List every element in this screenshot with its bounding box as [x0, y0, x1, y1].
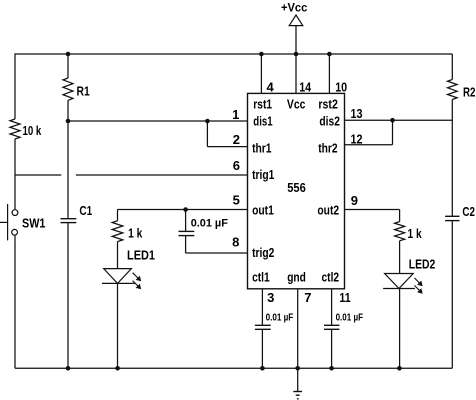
svg-text:dis1: dis1 — [253, 113, 272, 128]
svg-text:trig1: trig1 — [252, 167, 274, 182]
wire pin 7 gnd stub to ground bus — [297, 289, 299, 369]
resistor R1 — [63, 78, 73, 100]
wire pin 10 stub — [328, 54, 330, 93]
resistor 1 k (LED2) — [395, 222, 405, 241]
switch SW1 plunger stem — [0, 221, 8, 223]
LED2 cathode bar — [383, 288, 415, 290]
wire pin 11 stub — [331, 289, 333, 326]
junction dis2/thr2 tie — [390, 118, 395, 123]
svg-text:Vcc: Vcc — [287, 97, 306, 112]
svg-text:SW1: SW1 — [22, 215, 45, 230]
ground symbol bar 2 — [296, 394, 300, 396]
junction C1 line on ground bus — [66, 366, 71, 371]
svg-text:rst1: rst1 — [253, 97, 272, 112]
wire ctl1 cap to ground bus — [261, 329, 263, 368]
wire thr2 tie vertical — [392, 120, 394, 145]
svg-text:gnd: gnd — [287, 270, 306, 285]
svg-text:12: 12 — [351, 132, 363, 147]
switch SW1 pushbutton contact lower — [12, 229, 18, 235]
svg-text:dis2: dis2 — [319, 113, 340, 128]
wire C2 bottom lead to ground bus — [451, 221, 453, 369]
svg-text:C1: C1 — [79, 203, 92, 218]
wire R2 bottom lead to dis2 line — [451, 100, 453, 217]
junction LED2 line on ground bus — [397, 366, 402, 371]
wire 1 k to LED2 anode — [399, 241, 401, 274]
wire left rail middle segment — [14, 139, 16, 210]
LED1 cathode bar — [102, 282, 135, 284]
wire top rail +Vcc (left to right) — [15, 53, 452, 55]
junction pin 11 line on ground bus — [329, 366, 334, 371]
capacitor C1 top plate — [61, 218, 77, 220]
svg-text:3: 3 — [267, 290, 274, 305]
svg-text:R2: R2 — [463, 85, 476, 100]
capacitor 0.01 uF (ctl2) bottom plate — [324, 328, 339, 330]
switch SW1 actuator bar — [7, 204, 9, 240]
wire left rail lower segment — [14, 235, 16, 368]
ground symbol bar 3 — [297, 398, 299, 400]
svg-text:0.01 µF: 0.01 µF — [191, 217, 228, 229]
wire C1 top lead (dis1 node down to C1) — [67, 121, 69, 219]
capacitor C2 bottom plate — [445, 220, 459, 222]
wire out1 (pin 5 to LED branch) — [118, 209, 248, 211]
svg-text:trig2: trig2 — [252, 245, 274, 260]
svg-text:14: 14 — [299, 80, 312, 95]
svg-text:0.01 µF: 0.01 µF — [336, 312, 363, 323]
power symbol +Vcc triangle — [289, 15, 303, 26]
capacitor 0.01 uF (out1-trig2) bottom plate — [179, 235, 195, 237]
svg-text:2: 2 — [233, 132, 240, 147]
svg-text:0.01 µF: 0.01 µF — [266, 312, 294, 323]
svg-text:thr2: thr2 — [318, 141, 337, 156]
wire out2 corner down to 1 k — [399, 210, 401, 222]
LED2 triangle — [385, 274, 414, 289]
capacitor 0.01 uF (ctl1) bottom plate — [255, 328, 271, 330]
wire dis2 (pin 13 to R2 line) — [345, 119, 453, 121]
wire pin 4 stub — [260, 54, 262, 93]
wire pin 3 stub — [261, 289, 263, 326]
wire C1 bottom lead to ground bus — [67, 223, 69, 369]
svg-text:LED1: LED1 — [127, 248, 155, 263]
wire ground stem — [297, 368, 299, 391]
wire out2 (pin 9 to LED2 branch) — [345, 209, 400, 211]
svg-text:11: 11 — [339, 290, 350, 305]
capacitor C2 top plate — [445, 215, 459, 217]
svg-text:4: 4 — [267, 80, 275, 95]
svg-text:1 k: 1 k — [408, 226, 423, 241]
svg-text:9: 9 — [351, 193, 358, 208]
svg-text:556: 556 — [287, 180, 306, 195]
svg-text:thr1: thr1 — [252, 141, 271, 156]
svg-text:6: 6 — [233, 158, 240, 173]
junction pin 3 line on ground bus — [260, 366, 265, 371]
svg-text:10: 10 — [335, 80, 347, 95]
resistor 10 k (potentiometer leg, left rail) — [10, 119, 20, 139]
junction pin 4 on +Vcc rail — [259, 52, 264, 57]
switch SW1 pushbutton contact upper — [12, 210, 18, 216]
svg-text:10 k: 10 k — [23, 123, 42, 138]
svg-text:1: 1 — [232, 107, 239, 122]
junction LED1 line on ground bus — [115, 366, 120, 371]
junction pin 7 line on ground bus — [295, 366, 300, 371]
op-amp/IC U1 556 body — [248, 93, 345, 288]
LED1 triangle — [104, 269, 132, 284]
svg-text:5: 5 — [233, 193, 240, 208]
wire thr2 (pin 12) — [345, 144, 393, 146]
LED2 light arrow lower — [414, 285, 422, 293]
junction node dis1 at R1/C1 — [66, 119, 71, 124]
wire cap bottom lead down — [185, 236, 187, 253]
ground symbol bar 1 — [293, 391, 302, 393]
wire thr1 (to pin 2) — [207, 146, 247, 148]
svg-text:out1: out1 — [252, 203, 274, 218]
svg-text:out2: out2 — [317, 203, 339, 218]
wire out1 corner down to 1 k — [117, 210, 119, 221]
LED2 light arrow upper — [414, 278, 422, 286]
svg-text:R1: R1 — [77, 84, 90, 99]
junction out1 to timing cap — [183, 207, 188, 212]
wire trig1 right segment (crossover gap to pin 6) — [76, 174, 248, 176]
svg-text:13: 13 — [351, 106, 363, 121]
capacitor 0.01 uF (ctl2) top plate — [324, 324, 339, 326]
wire LED1 cathode to ground bus — [117, 283, 119, 368]
junction pin 14 on +Vcc rail — [294, 52, 299, 57]
LED1 light arrow upper — [133, 273, 142, 282]
capacitor C1 bottom plate — [61, 222, 77, 224]
resistor R2 — [448, 80, 458, 100]
wire R2 top lead (from +Vcc rail) — [451, 54, 453, 80]
wire thr1 tie vertical — [206, 121, 208, 147]
wire cap C3 top lead — [185, 210, 187, 232]
svg-text:ctl2: ctl2 — [322, 270, 340, 285]
svg-text:+Vcc: +Vcc — [281, 0, 308, 14]
LED1 light arrow lower — [133, 281, 142, 290]
junction dis1/thr1 tie — [205, 119, 210, 124]
svg-text:1 k: 1 k — [128, 226, 143, 241]
svg-text:rst2: rst2 — [318, 97, 338, 112]
resistor 1 k (LED1) — [112, 221, 123, 242]
wire trig2 (to pin 8) — [186, 252, 248, 254]
wire dis1 (R1 junction to pin 1) — [68, 120, 248, 122]
svg-text:ctl1: ctl1 — [252, 270, 270, 285]
wire LED2 cathode to ground bus — [399, 289, 401, 369]
wire R1 bottom lead to dis1 node — [67, 100, 69, 121]
capacitor 0.01 uF (out1-trig2) top plate — [179, 230, 195, 232]
svg-text:C2: C2 — [462, 204, 475, 219]
wire R1 top lead — [67, 54, 69, 78]
wire bottom rail (ground bus) — [15, 367, 452, 369]
svg-text:LED2: LED2 — [409, 256, 436, 271]
junction pin 10 on +Vcc rail — [327, 52, 332, 57]
wire +Vcc stem — [295, 26, 297, 54]
wire pin 14 stub — [295, 54, 297, 93]
wire ctl2 cap to ground bus — [331, 329, 333, 368]
wire left rail upper segment — [14, 53, 16, 119]
wire trig1 left segment (left rail toward IC) — [15, 174, 61, 176]
svg-text:7: 7 — [304, 290, 311, 305]
svg-text:8: 8 — [232, 235, 239, 250]
junction R1 top on +Vcc rail — [66, 52, 71, 57]
wire 1 k to LED1 anode — [117, 242, 119, 269]
capacitor 0.01 uF (ctl1) top plate — [255, 324, 271, 326]
